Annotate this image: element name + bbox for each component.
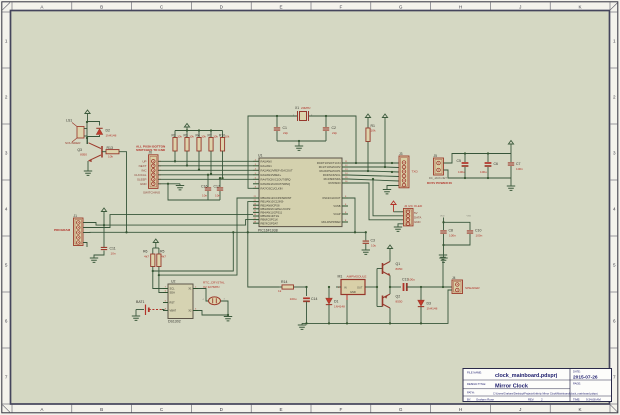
- svg-text:C10: C10: [475, 229, 481, 233]
- wire J2 GND: [398, 224, 404, 227]
- svg-text:Mirror Clock: Mirror Clock: [495, 383, 529, 389]
- svg-text:6: 6: [5, 319, 8, 324]
- svg-text:4: 4: [613, 207, 616, 212]
- title block: [463, 369, 612, 402]
- wire crystal left leg: [248, 115, 297, 188]
- svg-text:LS1: LS1: [66, 119, 72, 123]
- svg-text:100n: 100n: [449, 234, 456, 238]
- capacitor C16: [168, 174, 220, 200]
- diode D3 1N4148: [418, 287, 438, 323]
- wire I2C SDA bus: [158, 198, 253, 276]
- svg-text:9:34:08 AM: 9:34:08 AM: [586, 397, 601, 401]
- svg-text:Q3: Q3: [77, 148, 82, 152]
- svg-text:FILE NAME:: FILE NAME:: [467, 371, 482, 375]
- svg-text:VSS: VSS: [467, 216, 472, 218]
- capacitor C8: [440, 218, 456, 259]
- capacitor C6 100u: [480, 154, 498, 179]
- svg-text:D1: D1: [334, 300, 339, 304]
- svg-text:RB5/AN13/T1G: RB5/AN13/T1G: [261, 214, 280, 218]
- capacitor C1: [274, 116, 289, 141]
- wire sounder vertical net: [86, 121, 88, 144]
- ground amp rail: [298, 323, 306, 329]
- power arrow Q1: [387, 245, 392, 252]
- wire pull-up top rail: [175, 129, 223, 131]
- svg-text:C17: C17: [214, 185, 220, 189]
- svg-text:D3: D3: [427, 302, 432, 306]
- ground speaker return: [439, 255, 447, 287]
- svg-text:PATH:: PATH:: [467, 391, 475, 395]
- connector J1 ICSP: [74, 214, 84, 246]
- battery BAT1: [136, 300, 162, 315]
- svg-text:RA0/AN0: RA0/AN0: [261, 159, 273, 163]
- svg-text:H: H: [459, 407, 462, 412]
- svg-text:MCLR/VPP/RE3: MCLR/VPP/RE3: [321, 220, 341, 224]
- svg-text:RA7/OSC1/CLKIN: RA7/OSC1/CLKIN: [261, 186, 283, 190]
- svg-text:C3: C3: [371, 239, 376, 243]
- svg-text:RA1/AN1: RA1/AN1: [261, 164, 273, 168]
- ground push buttons: [176, 184, 184, 190]
- svg-text:Q2: Q2: [396, 295, 401, 299]
- svg-text:M1: M1: [338, 274, 343, 278]
- svg-text:VDD: VDD: [440, 216, 445, 218]
- svg-text:PROGRAM: PROGRAM: [54, 228, 71, 232]
- svg-text:10k: 10k: [371, 129, 376, 133]
- svg-text:X1: X1: [188, 287, 192, 291]
- wire push row CLK: [158, 174, 253, 176]
- svg-text:Graham Rose: Graham Rose: [476, 397, 494, 401]
- svg-text:SDA: SDA: [170, 291, 176, 295]
- svg-text:10k: 10k: [177, 134, 182, 138]
- capacitor C5 100u: [457, 154, 469, 179]
- svg-text:J6: J6: [149, 151, 153, 155]
- svg-text:10k: 10k: [225, 134, 230, 138]
- sounder LS1: [65, 119, 88, 145]
- connector J2 I2C OLED: [404, 204, 423, 226]
- wire MCU SDA to J2: [348, 183, 404, 220]
- svg-text:SCL: SCL: [170, 287, 176, 291]
- svg-text:100u: 100u: [408, 278, 415, 282]
- ground X2: [224, 315, 232, 321]
- svg-text:RB2/AN8/CPS8: RB2/AN8/CPS8: [261, 203, 280, 207]
- ground J3: [383, 190, 391, 194]
- svg-text:R14: R14: [281, 280, 287, 284]
- wire crystal right leg: [309, 115, 357, 164]
- transistor Q1 8050: [383, 252, 403, 287]
- wire power bottom rail: [444, 170, 512, 179]
- svg-text:G: G: [399, 407, 403, 412]
- svg-text:6: 6: [613, 319, 616, 324]
- svg-text:R1: R1: [371, 124, 376, 128]
- svg-text:C1: C1: [283, 126, 288, 130]
- svg-text:B: B: [100, 4, 103, 9]
- svg-text:J4: J4: [452, 276, 456, 280]
- resistor R1 10k: [348, 114, 376, 172]
- svg-text:RC3/SCK/SCL: RC3/SCK/SCL: [323, 173, 341, 177]
- svg-text:RC2/CPS2/CCP1: RC2/CPS2/CCP1: [319, 169, 341, 173]
- wire push row GND: [158, 183, 180, 185]
- ground power rail: [507, 178, 515, 190]
- svg-text:J: J: [519, 407, 521, 412]
- diode D2 1N4148: [88, 122, 117, 138]
- svg-text:7: 7: [5, 375, 8, 380]
- crystal X1 20MHz: [293, 106, 313, 121]
- svg-text:4k7: 4k7: [161, 254, 166, 258]
- svg-text:10u: 10u: [371, 243, 376, 247]
- svg-text:1k: 1k: [278, 289, 282, 293]
- wire ICSP GND row: [83, 243, 87, 248]
- svg-text:5: 5: [613, 263, 616, 268]
- svg-text:DATA: DATA: [414, 216, 421, 220]
- svg-text:DC5V POWER IN: DC5V POWER IN: [427, 181, 453, 185]
- svg-text:VUSB: VUSB: [333, 204, 340, 208]
- svg-text:C14: C14: [311, 297, 317, 301]
- wire J3 GND row: [387, 186, 399, 190]
- wire MCU to J3 row1: [348, 162, 399, 164]
- svg-text:IN: IN: [344, 286, 347, 290]
- wire audio net riser: [248, 202, 279, 287]
- ground C3: [362, 250, 370, 254]
- IC U2 DS1302: [163, 280, 198, 324]
- svg-text:100u: 100u: [480, 170, 487, 174]
- svg-text:RST: RST: [170, 301, 176, 305]
- power arrow MCLR: [348, 114, 388, 168]
- svg-text:D2: D2: [106, 129, 111, 133]
- capacitor C2: [323, 116, 338, 141]
- svg-text:RA3/AN3/VREF+: RA3/AN3/VREF+: [261, 173, 282, 177]
- svg-text:GND: GND: [140, 182, 147, 186]
- svg-text:RB0/AN12/CCP4/SRI/INT: RB0/AN12/CCP4/SRI/INT: [261, 196, 292, 200]
- svg-text:8550: 8550: [396, 300, 403, 304]
- wire R13 to bus: [119, 152, 128, 234]
- svg-text:F: F: [339, 4, 342, 9]
- svg-text:RB3/AN9/C12IN2-/CCP2: RB3/AN9/C12IN2-/CCP2: [261, 207, 291, 211]
- svg-text:X2: X2: [188, 309, 192, 313]
- resistor R7 10k: [208, 131, 219, 176]
- svg-text:E: E: [280, 407, 283, 412]
- wire ICSP PGD row: [83, 215, 253, 228]
- wire MCU to J3 row5: [348, 179, 399, 181]
- resistor R3 10k: [184, 131, 195, 167]
- svg-text:RC4/SDI/SDA: RC4/SDI/SDA: [324, 177, 341, 181]
- wire MCU to J3 row4: [348, 175, 399, 177]
- svg-text:R5: R5: [160, 250, 165, 254]
- svg-text:5V: 5V: [414, 211, 418, 215]
- svg-text:1N4148: 1N4148: [106, 133, 117, 137]
- svg-text:5: 5: [5, 263, 8, 268]
- svg-text:1N4148: 1N4148: [427, 306, 438, 310]
- svg-text:4: 4: [5, 207, 8, 212]
- wire amp bottom rail: [302, 290, 452, 325]
- svg-text:8050: 8050: [80, 153, 87, 157]
- svg-text:OSC2/CLKOUT: OSC2/CLKOUT: [322, 196, 341, 200]
- svg-text:SLEEP: SLEEP: [137, 178, 147, 182]
- svg-text:RC1/T1OSI/CCP2: RC1/T1OSI/CCP2: [319, 165, 341, 169]
- svg-text:RTC_CRYSTAL: RTC_CRYSTAL: [203, 281, 225, 285]
- svg-text:RA2/AN2/VREF-/DACOUT: RA2/AN2/VREF-/DACOUT: [261, 168, 293, 172]
- power arrow VCC sounder: [85, 110, 90, 122]
- svg-text:BY:: BY:: [467, 397, 471, 401]
- capacitor C7 100n: [508, 154, 523, 179]
- svg-text:B: B: [100, 407, 103, 412]
- svg-text:OUT: OUT: [357, 286, 363, 290]
- svg-text:2015-07-26: 2015-07-26: [573, 374, 598, 380]
- svg-text:GND: GND: [350, 290, 356, 294]
- svg-text:H: H: [459, 4, 462, 9]
- ground C8 C10: [439, 258, 447, 262]
- capacitor C17: [214, 177, 224, 200]
- svg-text:C11: C11: [110, 247, 116, 251]
- power arrow pull-up rail: [184, 124, 189, 131]
- svg-text:C5: C5: [457, 159, 462, 163]
- capacitor C10: [444, 222, 483, 245]
- svg-text:10k: 10k: [213, 134, 218, 138]
- svg-text:J1: J1: [74, 214, 78, 218]
- svg-text:RB6/ICSPCLK: RB6/ICSPCLK: [261, 218, 279, 222]
- svg-text:22p: 22p: [332, 131, 337, 135]
- resistor R5 4k7: [157, 248, 168, 293]
- svg-text:RB7/ICSPDAT: RB7/ICSPDAT: [261, 221, 279, 225]
- svg-text:10n: 10n: [111, 252, 116, 256]
- svg-text:C2: C2: [332, 126, 337, 130]
- wire push row SLEEP: [158, 178, 253, 180]
- svg-text:1N4148: 1N4148: [334, 304, 345, 308]
- svg-text:R13: R13: [107, 146, 113, 150]
- svg-text:4k7: 4k7: [144, 254, 149, 258]
- svg-text:R6: R6: [143, 250, 148, 254]
- svg-text:R3: R3: [184, 133, 188, 137]
- wire RC6 to bus: [348, 198, 355, 232]
- annotation PROGRAM: [54, 228, 71, 232]
- svg-text:RB1/AN10/C12IN3-: RB1/AN10/C12IN3-: [261, 200, 285, 204]
- wire ICSP VPP row: [83, 220, 253, 227]
- svg-text:100u: 100u: [290, 297, 297, 301]
- svg-text:C7: C7: [516, 162, 521, 166]
- capacitor C14: [290, 287, 318, 323]
- connector J5 power in: [427, 154, 453, 185]
- svg-text:J2 I2C OLED: J2 I2C OLED: [404, 204, 423, 208]
- svg-text:10k: 10k: [201, 134, 206, 138]
- svg-text:R2: R2: [172, 133, 176, 137]
- power arrow J2 5V: [391, 201, 404, 212]
- MCU U1 PIC16F1938: [253, 153, 348, 232]
- svg-text:3: 3: [613, 151, 616, 156]
- power arrow ICSP: [101, 208, 106, 247]
- wire MCU SCL to J2: [372, 178, 404, 216]
- svg-text:SWITCHING: SWITCHING: [143, 190, 161, 194]
- svg-text:10k: 10k: [189, 134, 194, 138]
- svg-text:7: 7: [613, 375, 616, 380]
- svg-text:U1: U1: [258, 153, 263, 157]
- wire crystal bottom rail: [277, 140, 326, 142]
- svg-text:DESIGN TITLE:: DESIGN TITLE:: [467, 382, 486, 386]
- wire amp out: [389, 286, 401, 288]
- svg-text:C6: C6: [494, 162, 499, 166]
- ground BAT1: [132, 310, 140, 321]
- svg-text:Q1: Q1: [396, 262, 401, 266]
- svg-text:NEXT: NEXT: [139, 164, 147, 168]
- svg-text:22p: 22p: [283, 131, 288, 135]
- ground J1: [90, 258, 98, 262]
- svg-text:X1: X1: [295, 106, 299, 110]
- svg-text:INC: INC: [141, 169, 147, 173]
- wire amp output node: [376, 269, 383, 307]
- svg-text:3: 3: [5, 151, 8, 156]
- resistor R14: [278, 280, 308, 293]
- svg-text:SPEAKER: SPEAKER: [465, 286, 480, 290]
- resistor R2 10k: [172, 131, 183, 163]
- connector J4 speaker: [452, 276, 480, 294]
- svg-text:TXD: TXD: [412, 170, 419, 174]
- capacitor C11: [94, 247, 116, 259]
- wire MCU to J3 row3: [368, 171, 399, 173]
- svg-text:DATE:: DATE:: [573, 370, 581, 374]
- svg-text:TIME:: TIME:: [573, 397, 580, 401]
- wire BAT1 to U2: [162, 310, 168, 311]
- svg-text:VCAP: VCAP: [333, 212, 340, 216]
- resistor R13 10k: [102, 146, 119, 159]
- svg-text:F: F: [339, 407, 342, 412]
- svg-text:GND: GND: [414, 220, 421, 224]
- wire MCU to J3 row2: [385, 166, 399, 169]
- ground J2: [394, 227, 402, 231]
- svg-text:VBAT: VBAT: [170, 309, 177, 313]
- wire push row INC: [158, 169, 253, 171]
- svg-text:REV:: REV:: [528, 397, 534, 401]
- capacitor C3: [363, 232, 377, 250]
- wire push row NEXT: [158, 165, 253, 167]
- svg-text:E: E: [280, 4, 283, 9]
- svg-text:RA4/T0CKI/C1OUT/SRQ: RA4/T0CKI/C1OUT/SRQ: [261, 177, 291, 181]
- svg-text:10k: 10k: [108, 155, 113, 159]
- svg-text:G: G: [399, 4, 403, 9]
- transistor Q2 8550: [383, 287, 403, 323]
- resistor R10 10k: [219, 131, 230, 180]
- svg-text:SOUNDER: SOUNDER: [65, 141, 81, 145]
- svg-text:8050: 8050: [396, 267, 403, 271]
- resistor R6 4k7: [143, 248, 168, 289]
- svg-text:R7: R7: [208, 133, 212, 137]
- annotation ALL PUSH BOTTON SWITCHES TO GND: [136, 144, 166, 152]
- svg-text:RB4/AN11/CPS11: RB4/AN11/CPS11: [261, 211, 283, 215]
- svg-text:U2: U2: [171, 280, 176, 284]
- wire I2C SCL bus: [152, 232, 234, 272]
- svg-text:DC_JACK-NET: DC_JACK-NET: [429, 176, 447, 180]
- power arrow +5V rail: [508, 141, 513, 154]
- svg-text:J5: J5: [434, 154, 438, 158]
- svg-text:AMPMODULE: AMPMODULE: [347, 274, 367, 278]
- svg-text:clock_mainboard.pdsprj: clock_mainboard.pdsprj: [495, 373, 558, 379]
- svg-text:C16: C16: [201, 185, 207, 189]
- svg-text:10n: 10n: [215, 194, 220, 198]
- svg-text:R4: R4: [196, 133, 200, 137]
- svg-text:DS1302: DS1302: [168, 320, 181, 324]
- svg-text:20MHz: 20MHz: [301, 106, 311, 110]
- module M1 amplifier: [336, 274, 377, 323]
- power arrow RTC pull-ups: [153, 239, 159, 248]
- wire push row UP: [158, 160, 253, 162]
- wire power top rail: [444, 152, 512, 163]
- svg-text:RC0/T1OSO/T1CKI: RC0/T1OSO/T1CKI: [317, 161, 341, 165]
- node VDD label: [440, 216, 471, 218]
- capacitor C13: [402, 278, 452, 292]
- ground crystal: [295, 141, 303, 150]
- svg-text:1: 1: [5, 39, 8, 44]
- svg-text:C:\Users\Graham\Desktop\Projec: C:\Users\Graham\Desktop\Projects\Infinit…: [493, 391, 598, 395]
- resistor R4 10k: [196, 131, 207, 171]
- svg-text:10n: 10n: [202, 194, 207, 198]
- transistor Q3 8050: [77, 138, 102, 171]
- svg-text:CLK/CAL: CLK/CAL: [134, 173, 147, 177]
- crystal X2 32768Hz: [198, 281, 228, 316]
- svg-text:UP: UP: [142, 160, 146, 164]
- svg-text:PAGE:: PAGE:: [573, 382, 581, 386]
- pin stubs push connector: [158, 161, 161, 184]
- svg-text:100n: 100n: [476, 234, 483, 238]
- svg-text:100n: 100n: [516, 167, 523, 171]
- svg-text:C8: C8: [449, 229, 454, 233]
- svg-text:2: 2: [5, 95, 8, 100]
- svg-text:PIC16F1938: PIC16F1938: [258, 229, 278, 233]
- svg-text:J3: J3: [399, 152, 403, 156]
- svg-text:RA5/AN4/C2OUT/SRNQ: RA5/AN4/C2OUT/SRNQ: [261, 182, 291, 186]
- svg-text:BAT1: BAT1: [136, 300, 145, 304]
- svg-text:J: J: [519, 4, 521, 9]
- svg-text:100u: 100u: [458, 170, 465, 174]
- ground sounder: [84, 171, 92, 175]
- svg-text:1: 1: [613, 39, 616, 44]
- connector J6 push buttons: [134, 151, 161, 195]
- wire ICSP PGC long row: [83, 231, 367, 233]
- svg-text:RC5/SDO: RC5/SDO: [329, 181, 341, 185]
- diode D1 1N4148: [326, 286, 345, 324]
- wire U2 X2 pin: [198, 311, 229, 317]
- connector J3 serial: [399, 152, 418, 188]
- svg-text:2: 2: [613, 95, 616, 100]
